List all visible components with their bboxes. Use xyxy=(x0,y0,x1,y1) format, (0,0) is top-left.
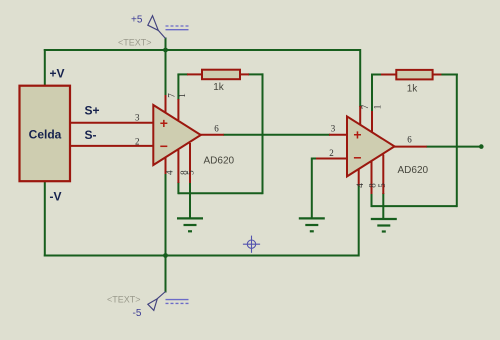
pin op2 pin1 stub xyxy=(371,111,373,132)
svg-text:<TEXT>: <TEXT> xyxy=(107,295,141,305)
wire feedback2 top left xyxy=(371,74,383,76)
wire feedback1 left vertical xyxy=(177,74,179,100)
junction dot -5 rail xyxy=(163,253,168,258)
pin resistor R2 left lead xyxy=(381,74,397,76)
wire op2 pin2 horizontal xyxy=(312,158,317,160)
wire op1 output to op2 input xyxy=(223,134,330,136)
wire op1 pin7 supply drop xyxy=(165,50,167,96)
svg-text:+V: +V xyxy=(50,67,65,81)
svg-text:+: + xyxy=(160,115,168,131)
svg-text:3: 3 xyxy=(331,124,336,134)
svg-text:−: − xyxy=(160,138,168,154)
wire +5 rail top horizontal xyxy=(44,49,360,51)
svg-text:+: + xyxy=(353,127,361,143)
wire op1 pin8 drop xyxy=(177,182,179,194)
pin op2 pin6 output stub xyxy=(392,146,427,148)
pin op2 pin7 stub xyxy=(359,106,361,131)
wire feedback1 top left xyxy=(177,73,188,75)
op-amp U2 AD620 triangle xyxy=(347,116,395,176)
wire ground3 stem xyxy=(382,206,384,219)
pin resistor R2 right lead xyxy=(432,74,441,76)
svg-text:7: 7 xyxy=(360,104,370,109)
svg-text:1: 1 xyxy=(177,93,187,98)
svg-text:7: 7 xyxy=(167,93,177,98)
svg-text:2: 2 xyxy=(135,136,140,146)
pin op1 pin1 stub xyxy=(177,99,179,120)
wire ground1 stem xyxy=(189,193,191,218)
origin marker xyxy=(243,236,260,253)
svg-text:1k: 1k xyxy=(407,84,419,95)
wire feedback1 right vertical xyxy=(262,73,264,194)
svg-text:+5: +5 xyxy=(131,15,143,26)
svg-text:<TEXT>: <TEXT> xyxy=(118,38,152,48)
svg-text:1: 1 xyxy=(373,105,383,110)
wire feedback2 top right xyxy=(440,74,457,76)
ground 2 xyxy=(299,218,325,231)
svg-text:6: 6 xyxy=(407,135,412,145)
text placeholder dashes bottom xyxy=(166,300,189,304)
pin op2 pin4 stub xyxy=(358,164,360,186)
wire op1 pin4 to -5 terminal vertical xyxy=(165,173,167,293)
pin op2 pin8 stub xyxy=(371,162,373,195)
text placeholder dashes top xyxy=(166,26,189,30)
pin op2 pin3 stub xyxy=(329,134,348,136)
svg-text:S+: S+ xyxy=(85,104,100,118)
svg-text:4: 4 xyxy=(355,183,365,188)
pin S- wire Celda to op1 pin2 xyxy=(69,145,153,147)
svg-text:8: 8 xyxy=(368,183,378,188)
component Celda box xyxy=(20,86,71,182)
node output dot xyxy=(479,144,484,149)
wire feedback1 bottom xyxy=(178,192,262,194)
svg-text:S-: S- xyxy=(85,128,97,142)
pin op2 pin2 stub xyxy=(316,158,348,160)
ground 3 xyxy=(371,219,397,232)
ground 1 xyxy=(177,218,203,231)
svg-text:1k: 1k xyxy=(213,82,225,93)
wire feedback2 left vertical xyxy=(371,75,373,113)
pin op2 pin5 stub xyxy=(382,155,384,195)
wire feedback2 bottom xyxy=(372,205,457,207)
pin op1 pin6 output stub xyxy=(198,134,224,136)
svg-text:AD620: AD620 xyxy=(204,156,235,167)
pin op1 pin4 stub xyxy=(165,153,167,175)
svg-text:2: 2 xyxy=(329,148,334,158)
wire Celda -V vertical xyxy=(44,181,46,257)
pin op1 pin8 stub xyxy=(177,150,179,183)
wire op1 pin5 drop xyxy=(189,182,191,193)
wire op2 pin4 drop xyxy=(358,185,360,257)
pin op1 pin7 stub xyxy=(165,95,167,119)
resistor R1 body xyxy=(202,70,240,80)
svg-text:−: − xyxy=(353,150,361,166)
svg-text:AD620: AD620 xyxy=(398,165,429,176)
pin resistor R1 right lead xyxy=(239,73,249,75)
wire ground2 vertical xyxy=(311,158,313,219)
power terminal -5 symbol xyxy=(148,292,166,311)
svg-text:4: 4 xyxy=(165,170,175,175)
svg-text:6: 6 xyxy=(214,124,219,134)
wire feedback1 top right xyxy=(248,73,264,75)
power terminal +5 symbol xyxy=(148,16,166,39)
wire -5 rail bottom horizontal xyxy=(44,255,359,257)
svg-text:Celda: Celda xyxy=(29,128,62,142)
op-amp U1 AD620 triangle xyxy=(153,105,201,165)
svg-text:-V: -V xyxy=(50,190,62,204)
svg-text:5: 5 xyxy=(377,183,387,188)
junction dot +5 rail xyxy=(163,48,168,53)
svg-text:3: 3 xyxy=(135,113,140,123)
pin op1 pin5 stub xyxy=(189,143,191,183)
pin resistor R1 left lead xyxy=(187,73,203,75)
wire op2 output xyxy=(426,146,479,148)
wire op2 pin8 drop xyxy=(371,193,373,207)
resistor R2 body xyxy=(396,70,432,80)
wire Celda +V vertical xyxy=(44,49,46,87)
pin S+ wire Celda to op1 pin3 xyxy=(69,122,153,124)
wire op2 pin5 drop xyxy=(382,193,384,206)
wire feedback2 right vertical xyxy=(456,74,458,208)
svg-text:-5: -5 xyxy=(133,308,142,319)
wire +5 terminal stub xyxy=(165,38,167,51)
svg-text:5: 5 xyxy=(185,170,195,175)
wire op2 pin7 supply drop xyxy=(359,49,361,107)
